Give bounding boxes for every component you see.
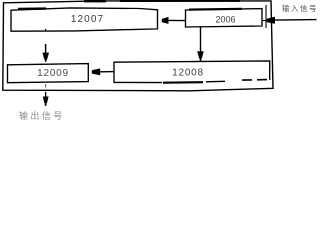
arrowhead into 12008: [197, 51, 204, 58]
wire 2006 to 12007: [168, 19, 186, 21]
svg-text:输入信号: 输入信号: [282, 4, 318, 13]
arrowhead into 12009 top: [42, 53, 49, 60]
frame ghost edge segment: [265, 5, 267, 28]
arrowhead into 12009: [92, 68, 100, 75]
arrowhead output: [43, 97, 49, 104]
outer frame: [3, 1, 273, 91]
arrowhead into 2006: [267, 17, 275, 24]
wire input signal: [262, 19, 267, 21]
wire 12007 to 12009: [45, 29, 47, 32]
wire 12009 output: [45, 84, 47, 88]
wire 12008 to 12009: [100, 71, 115, 73]
frame top-edge blob: [84, 0, 106, 2]
wire 2006 to 12008: [200, 26, 202, 51]
svg-text:12009: 12009: [37, 68, 69, 79]
block 2006: [186, 9, 263, 27]
block 12007: [11, 8, 158, 31]
svg-text:输出信号: 输出信号: [19, 110, 65, 120]
block 12008 bottom-edge segments: [114, 81, 163, 83]
svg-text:12007: 12007: [71, 14, 104, 25]
arrowhead into 12007: [162, 17, 169, 24]
block 12008: [114, 61, 270, 82]
block 2006 top-edge blob: [189, 8, 242, 11]
svg-text:2006: 2006: [215, 14, 235, 24]
frame top-edge thick segment: [120, 0, 240, 2]
block 12007 top-edge blob: [18, 7, 46, 10]
block 12009: [8, 64, 89, 83]
svg-text:12008: 12008: [172, 68, 204, 79]
